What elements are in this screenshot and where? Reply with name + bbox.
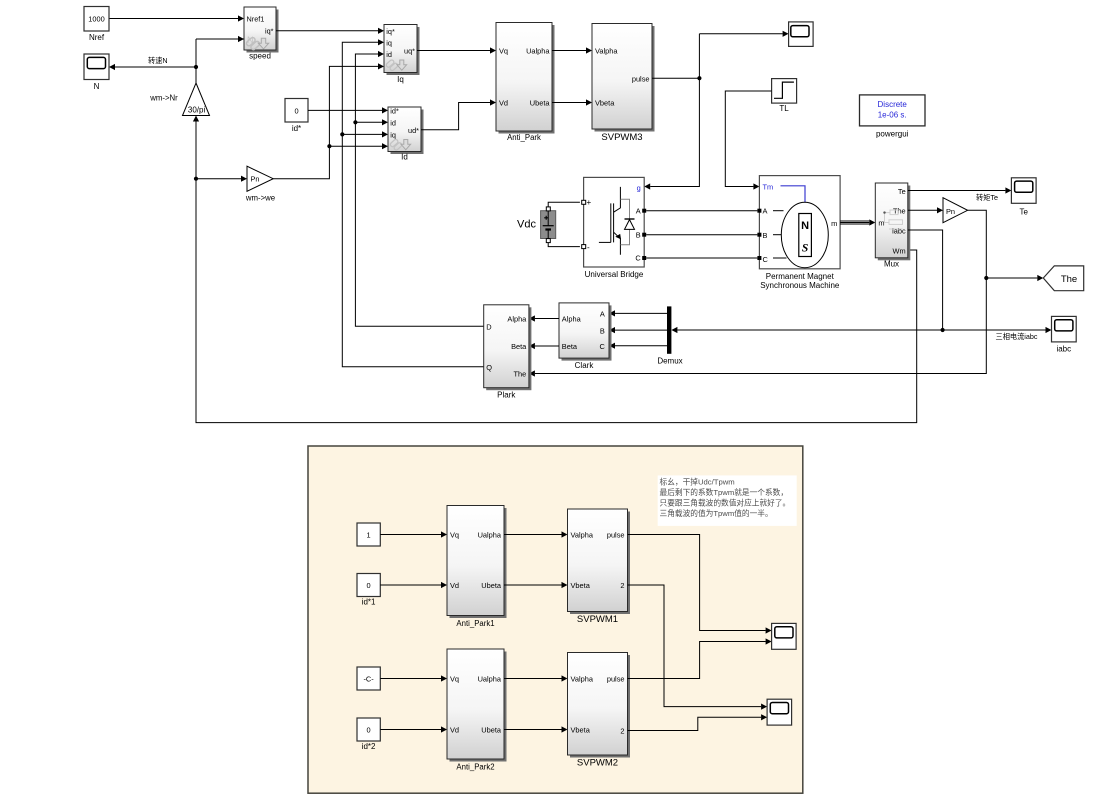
subsystem Anti_Park1: [447, 506, 507, 629]
scope panel2: [767, 699, 792, 725]
svg-text:Vd: Vd: [450, 581, 459, 590]
svg-text:pulse: pulse: [607, 531, 625, 540]
svg-text:0: 0: [294, 107, 298, 116]
svg-text:m: m: [831, 219, 837, 228]
selector Mux: [875, 183, 910, 269]
svg-text:0: 0: [367, 726, 371, 735]
svg-text:Discrete: Discrete: [878, 100, 908, 109]
scope panel1: [772, 623, 797, 649]
svg-text:Vbeta: Vbeta: [595, 99, 615, 108]
svg-text:0: 0: [367, 581, 371, 590]
svg-text:Synchronous Machine: Synchronous Machine: [760, 281, 840, 290]
svg-text:id*1: id*1: [362, 598, 376, 607]
svg-text:三相电流iabc: 三相电流iabc: [996, 332, 1038, 341]
wire 0 to Anti_Park2 Vd: [380, 726, 447, 732]
svg-text:D: D: [486, 323, 491, 332]
svg-text:转速N: 转速N: [148, 56, 168, 65]
svg-text:Alpha: Alpha: [507, 315, 527, 324]
annotation note: [658, 475, 797, 526]
svg-text:pulse: pulse: [607, 675, 625, 684]
subsystem Clark: [559, 303, 612, 370]
wire -C- to Anti_Park2 Vq: [380, 675, 447, 681]
svg-text:S: S: [802, 243, 808, 255]
svg-text:ud*: ud*: [408, 126, 419, 135]
block Universal Bridge: [582, 177, 647, 278]
svg-text:1000: 1000: [88, 15, 104, 24]
wire Nref to speed: [109, 15, 244, 21]
svg-text:Anti_Park1: Anti_Park1: [456, 619, 494, 628]
wire Clark Beta to Plark: [529, 343, 559, 349]
scope Te: [1011, 178, 1036, 217]
step TL: [772, 79, 797, 113]
svg-text:id*2: id*2: [362, 742, 376, 751]
svg-text:2: 2: [620, 727, 624, 736]
wire gain 30/pi output to N scope and speed: [109, 36, 244, 83]
svg-text:Te: Te: [898, 187, 906, 196]
wire Ualpha1: [504, 531, 568, 537]
gain wm->we Pn: [245, 166, 275, 202]
wire pulse1 to scope: [628, 535, 772, 634]
wire Demux A to Clark: [609, 310, 667, 316]
wire iabc to Demux and scope: [671, 230, 1051, 333]
svg-text:uq*: uq*: [404, 46, 415, 55]
wire bridge B to PMSM B: [646, 234, 757, 236]
svg-text:iabc: iabc: [892, 227, 906, 236]
svg-text:C: C: [635, 254, 641, 263]
svg-text:iq: iq: [390, 131, 396, 140]
area panel: [308, 446, 803, 793]
wire m bus to Mux: [840, 219, 875, 225]
svg-text:iq*: iq*: [265, 27, 274, 36]
svg-text:Ubeta: Ubeta: [481, 581, 502, 590]
wire Vdc to bridge: [548, 202, 580, 246]
wire we from Pn to Iq and Id: [273, 63, 388, 178]
constant id*1 0: [357, 574, 380, 607]
subsystem SVPWM2: [568, 653, 631, 769]
wire out2-1 to scope: [628, 585, 768, 710]
constant 1: [357, 523, 380, 546]
svg-text:Pn: Pn: [946, 207, 955, 216]
machine PMSM: [757, 176, 840, 291]
svg-text:id*: id*: [390, 106, 399, 115]
wire pulse2 to scope: [628, 638, 772, 678]
svg-text:powergui: powergui: [876, 129, 909, 138]
svg-text:A: A: [600, 310, 605, 319]
svg-text:Clark: Clark: [575, 361, 595, 370]
scope pulse: [789, 22, 814, 47]
svg-text:id*: id*: [292, 124, 301, 133]
svg-text:The: The: [1061, 274, 1077, 285]
svg-text:Vd: Vd: [499, 99, 508, 108]
svg-text:Beta: Beta: [562, 342, 578, 351]
wire Q feedback from Plark to Iq and Id: [340, 39, 484, 367]
svg-text:Universal Bridge: Universal Bridge: [585, 270, 644, 279]
subsystem Anti_Park: [496, 23, 555, 142]
svg-text:Beta: Beta: [511, 342, 527, 351]
svg-text:SVPWM2: SVPWM2: [577, 758, 618, 769]
svg-text:A: A: [636, 207, 641, 216]
svg-text:2: 2: [620, 581, 624, 590]
wire bridge C to PMSM C: [646, 257, 757, 259]
constant id* 0: [285, 99, 308, 134]
svg-text:wm->Nr: wm->Nr: [149, 94, 178, 103]
scope iabc: [1052, 316, 1077, 353]
svg-text:wm->we: wm->we: [245, 194, 275, 203]
svg-text:Vq: Vq: [450, 675, 459, 684]
source Vdc: [517, 207, 556, 243]
svg-text:Plark: Plark: [497, 391, 516, 400]
wire bridge A to PMSM A: [646, 210, 757, 212]
svg-text:Id: Id: [401, 153, 408, 162]
subsystem speed: [244, 7, 279, 61]
wire Wm feedback loop: [193, 116, 917, 423]
subsystem Iq: [384, 25, 420, 84]
svg-text:+: +: [587, 198, 592, 207]
svg-text:A: A: [763, 207, 768, 216]
svg-text:m: m: [878, 219, 884, 228]
svg-text:Iq: Iq: [397, 75, 404, 84]
wire speed iq* to Iq: [276, 28, 384, 34]
svg-text:Valpha: Valpha: [571, 531, 594, 540]
wire TL to PMSM Tm: [725, 91, 771, 190]
wire D feedback from Plark to Iq and Id: [353, 51, 483, 326]
constant -C-: [357, 667, 380, 690]
svg-text:Ubeta: Ubeta: [530, 99, 551, 108]
svg-text:C: C: [599, 342, 605, 351]
svg-text:Mux: Mux: [884, 260, 899, 269]
wire ud* to Anti_Park Vd: [421, 99, 496, 129]
svg-text:Anti_Park: Anti_Park: [507, 133, 541, 142]
svg-text:Q: Q: [486, 363, 492, 372]
svg-text:Vq: Vq: [499, 47, 508, 56]
svg-text:N: N: [801, 220, 809, 232]
wire 1 to Anti_Park1 Vq: [380, 531, 447, 537]
svg-text:Vdc: Vdc: [517, 219, 536, 231]
svg-text:id: id: [390, 119, 396, 128]
wire Ualpha to SVPWM3: [552, 47, 592, 53]
svg-text:Vd: Vd: [450, 726, 459, 735]
constant Nref 1000: [84, 7, 109, 43]
subsystem Anti_Park2: [447, 649, 507, 772]
wire Te to scope: [908, 187, 1012, 193]
svg-text:B: B: [600, 326, 605, 335]
svg-text:Wm: Wm: [893, 247, 906, 256]
wire id* to Id: [308, 107, 388, 113]
svg-text:Valpha: Valpha: [571, 675, 594, 684]
svg-text:-: -: [587, 243, 590, 252]
svg-text:iq: iq: [386, 38, 392, 47]
wire Ubeta to SVPWM3: [552, 99, 592, 105]
wire pulse to scope and bridge g: [644, 31, 788, 190]
wire The to gain Pn: [908, 207, 943, 213]
subsystem Id: [388, 106, 424, 161]
svg-text:Vbeta: Vbeta: [571, 581, 591, 590]
svg-text:C: C: [763, 255, 769, 264]
svg-text:The: The: [514, 370, 527, 379]
wire out2-2 to scope: [628, 714, 768, 730]
goto tag The: [1043, 266, 1083, 291]
svg-text:iq*: iq*: [386, 27, 395, 36]
gain Pn: [943, 198, 968, 223]
svg-text:Anti_Park2: Anti_Park2: [456, 763, 494, 772]
subsystem SVPWM3: [592, 24, 655, 143]
wire Ubeta1: [504, 582, 568, 588]
svg-text:Vq: Vq: [450, 531, 459, 540]
svg-text:N: N: [94, 82, 100, 91]
wire uq* to Anti_Park Vq: [417, 47, 496, 53]
wire Ubeta2: [504, 726, 568, 732]
svg-text:Ualpha: Ualpha: [478, 531, 502, 540]
svg-text:SVPWM1: SVPWM1: [577, 614, 618, 625]
subsystem SVPWM1: [568, 509, 631, 625]
powergui: [860, 95, 926, 138]
svg-text:转矩Te: 转矩Te: [976, 193, 998, 202]
svg-text:Demux: Demux: [657, 357, 682, 366]
wire Ualpha2: [504, 675, 568, 681]
svg-text:1: 1: [367, 531, 371, 540]
svg-text:Nref: Nref: [89, 33, 105, 42]
wire Demux C to Clark: [609, 343, 667, 349]
scope N: [84, 54, 109, 91]
svg-text:TL: TL: [779, 104, 789, 113]
wire Demux B to Clark: [609, 327, 667, 333]
svg-text:Ubeta: Ubeta: [481, 726, 502, 735]
wire 0 to Anti_Park1 Vd: [380, 582, 447, 588]
svg-text:1e-06 s.: 1e-06 s.: [878, 110, 907, 119]
constant id*2 0: [357, 718, 380, 751]
svg-text:pulse: pulse: [632, 74, 650, 83]
svg-text:speed: speed: [249, 52, 271, 61]
svg-text:Pn: Pn: [251, 175, 260, 184]
svg-text:iabc: iabc: [1056, 344, 1071, 353]
svg-text:Ualpha: Ualpha: [478, 675, 502, 684]
wire Clark Alpha to Plark: [529, 315, 559, 321]
svg-text:Vbeta: Vbeta: [571, 726, 591, 735]
demux Demux: [657, 306, 682, 365]
svg-text:B: B: [636, 230, 641, 239]
svg-text:id: id: [386, 50, 392, 59]
svg-text:只要跟三角载波的数值对应上就好了。: 只要跟三角载波的数值对应上就好了。: [660, 498, 791, 508]
svg-text:Te: Te: [1019, 207, 1028, 216]
svg-text:B: B: [763, 231, 768, 240]
svg-text:Tm: Tm: [763, 183, 774, 192]
svg-text:g: g: [637, 183, 641, 192]
svg-text:-C-: -C-: [363, 675, 374, 684]
svg-text:Alpha: Alpha: [562, 315, 582, 324]
svg-text:最后剩下的系数Tpwm就是一个系数，: 最后剩下的系数Tpwm就是一个系数，: [660, 487, 789, 497]
subsystem Plark: [484, 305, 532, 400]
svg-text:Permanent Magnet: Permanent Magnet: [766, 272, 835, 281]
svg-text:标幺，干掉Udc/Tpwm: 标幺，干掉Udc/Tpwm: [660, 477, 735, 487]
svg-text:三角载波的值为Tpwm值的一半。: 三角载波的值为Tpwm值的一半。: [660, 508, 773, 518]
gain wm->Nr 30/pi: [149, 83, 209, 116]
wire Pn out to The tag and Plark The: [529, 210, 1043, 376]
svg-text:SVPWM3: SVPWM3: [601, 132, 642, 143]
svg-text:Nref1: Nref1: [247, 14, 265, 23]
svg-text:Ualpha: Ualpha: [526, 47, 550, 56]
svg-text:30/pi: 30/pi: [188, 106, 206, 115]
svg-text:Valpha: Valpha: [595, 47, 618, 56]
